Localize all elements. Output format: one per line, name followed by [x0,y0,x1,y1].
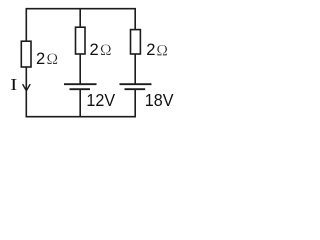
svg-text:Ω: Ω [100,42,112,59]
svg-text:2: 2 [146,41,155,59]
svg-text:2: 2 [36,50,45,68]
svg-text:18V: 18V [145,90,174,110]
svg-text:2: 2 [90,41,99,59]
svg-text:Ω: Ω [156,42,168,59]
svg-text:Ω: Ω [47,51,59,68]
svg-text:I: I [10,75,17,94]
svg-text:12V: 12V [86,90,115,110]
